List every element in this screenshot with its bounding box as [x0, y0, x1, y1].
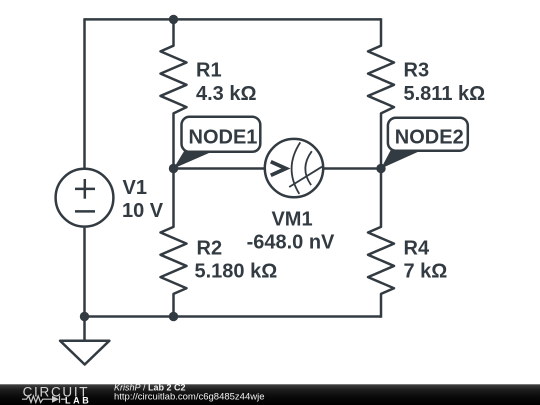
node NODE1 flag pointer — [174, 151, 214, 168]
resistor R3 — [368, 18, 394, 168]
svg-text:R4: R4 — [404, 238, 430, 260]
wire bottom rail — [85, 315, 382, 318]
node NODE2 junction dot — [376, 164, 385, 173]
svg-text:10 V: 10 V — [122, 200, 164, 222]
node NODE2 flag box — [388, 118, 468, 151]
svg-text:R2: R2 — [197, 238, 223, 260]
footer logo diode triangle — [52, 396, 59, 403]
node NODE1 junction dot — [169, 164, 178, 173]
svg-text:VM1: VM1 — [271, 209, 312, 231]
svg-text:R1: R1 — [196, 60, 222, 82]
footer bar — [0, 384, 540, 405]
resistor R1 — [161, 19, 187, 168]
voltmeter VM1 — [265, 139, 323, 197]
resistor R4 — [368, 169, 394, 318]
svg-text:7 kΩ: 7 kΩ — [404, 261, 448, 283]
svg-text:5.811 kΩ: 5.811 kΩ — [404, 83, 486, 105]
wire VM1 right terminal to NODE2 — [323, 167, 381, 170]
footer logo wire squiggle with diode — [22, 396, 66, 403]
wire NODE1 to VM1 left terminal — [174, 167, 265, 170]
ground — [60, 341, 109, 365]
svg-text:-648.0 nV: -648.0 nV — [247, 232, 335, 254]
node junction dot bottom rail / R2 — [169, 312, 178, 321]
wire left rail lower (V1 minus terminal to bottom rail) — [83, 228, 86, 317]
wire top rail — [85, 18, 382, 21]
wire ground stem — [83, 317, 86, 341]
node junction dot bottom rail / ground — [80, 312, 89, 321]
node junction dot top rail / R1 — [169, 15, 178, 24]
svg-text:LAB: LAB — [65, 395, 91, 405]
voltage source V1 — [56, 169, 114, 227]
node NODE1 flag box — [182, 117, 261, 152]
wire left rail upper (top rail to V1 plus terminal) — [83, 18, 86, 168]
svg-text:5.180 kΩ: 5.180 kΩ — [195, 261, 278, 283]
svg-text:NODE1: NODE1 — [189, 127, 258, 149]
svg-text:4.3 kΩ: 4.3 kΩ — [196, 83, 257, 105]
svg-text:http://circuitlab.com/c6g8485z: http://circuitlab.com/c6g8485z44wje — [114, 392, 265, 403]
svg-text:R3: R3 — [404, 60, 430, 82]
svg-text:V1: V1 — [123, 177, 147, 199]
svg-text:NODE2: NODE2 — [395, 127, 464, 149]
resistor R2 — [161, 169, 187, 317]
node NODE2 flag pointer — [381, 151, 421, 169]
